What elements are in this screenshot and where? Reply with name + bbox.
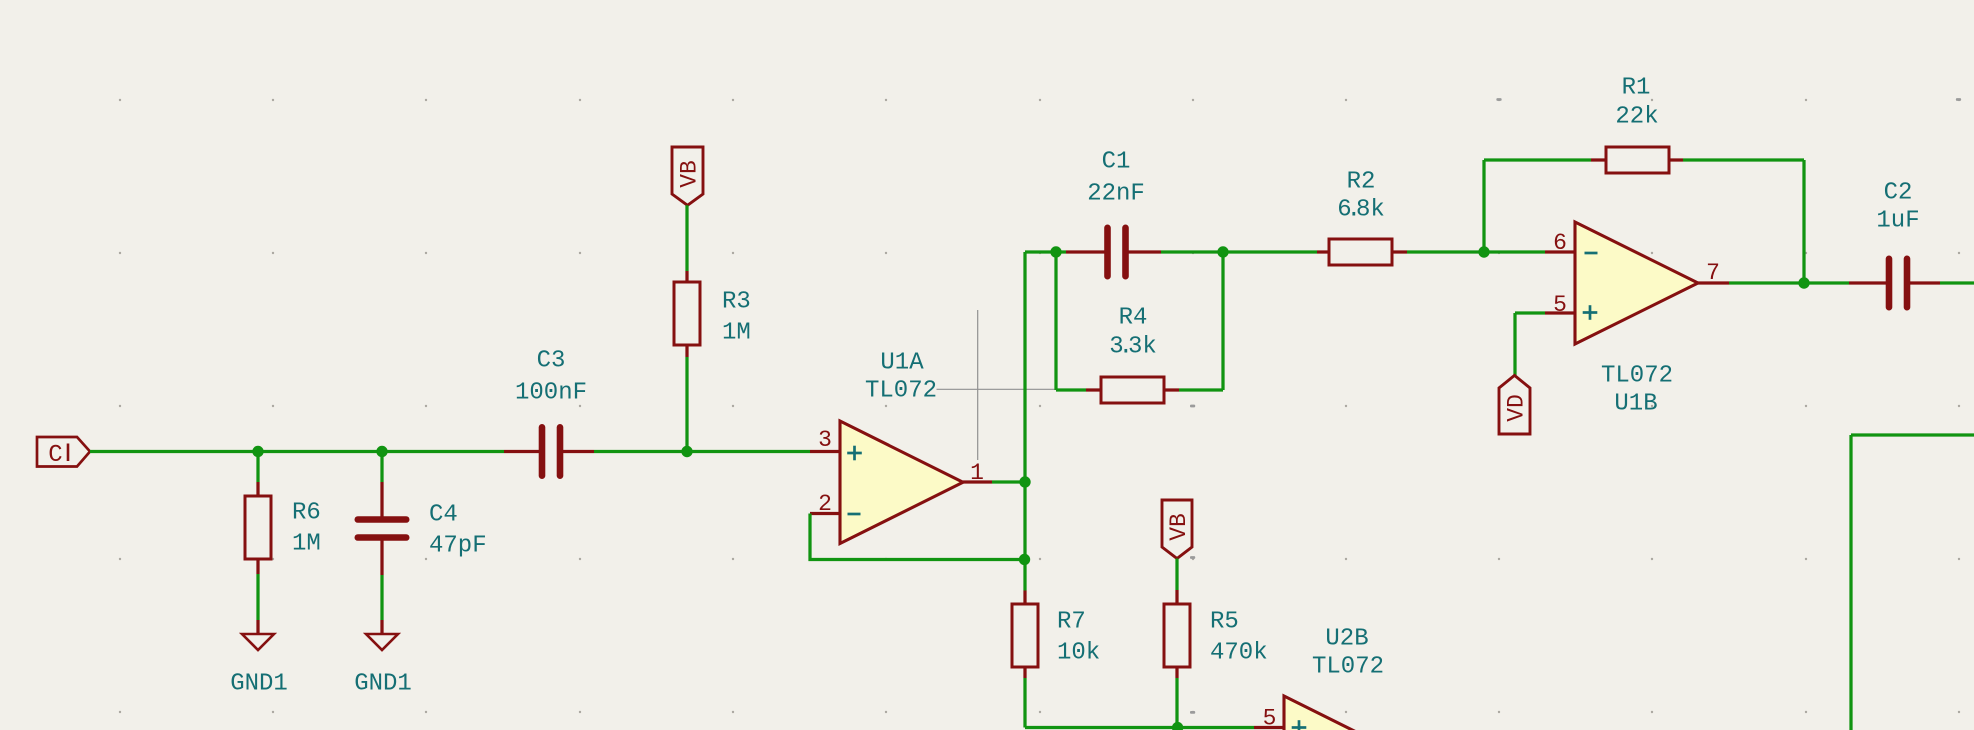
svg-text:TL072: TL072 (865, 378, 937, 405)
U2B plus input marker (1292, 720, 1307, 730)
wire R1 left leg (1484, 160, 1591, 252)
svg-text:VB: VB (1166, 513, 1192, 541)
svg-text:VD: VD (1504, 394, 1530, 422)
wire node to U1B pin 6 (1484, 250, 1545, 253)
U1B pin 6 (1545, 230, 1575, 256)
resistor R1 (1591, 75, 1683, 173)
junction at U1B output (1798, 277, 1809, 288)
wire R3 to main net (685, 357, 688, 452)
U1A pin 2 (810, 491, 840, 517)
resistor R4 (1086, 305, 1179, 403)
svg-text:R6: R6 (292, 500, 321, 527)
svg-text:5: 5 (1553, 292, 1567, 318)
op-amp U2B (1284, 626, 1408, 730)
resistor R3 (674, 271, 751, 357)
svg-text:1: 1 (970, 460, 984, 486)
wire U1B output (1729, 281, 1804, 284)
svg-text:C4: C4 (429, 502, 458, 529)
svg-text:TL072: TL072 (1601, 363, 1673, 390)
svg-text:6: 6 (1553, 230, 1567, 256)
wire C1 to R2 node (1161, 250, 1223, 253)
wire R3 node to U1A pin 3 (687, 450, 810, 453)
U1B pin 7 (1698, 260, 1729, 286)
wire R5 to bottom rail (1175, 678, 1178, 728)
svg-text:C2: C2 (1884, 180, 1913, 207)
wire VB to R5 (1175, 559, 1178, 591)
capacitor C1 (1056, 149, 1161, 277)
editor crosshair cursor (937, 310, 1075, 460)
U1B minus input marker (1585, 252, 1598, 255)
svg-text:R3: R3 (722, 289, 751, 316)
power symbol VB (bottom) (1162, 500, 1192, 559)
svg-text:U1A: U1A (880, 350, 924, 377)
svg-text:U2B: U2B (1325, 626, 1368, 653)
svg-text:1M: 1M (722, 320, 751, 347)
wire U1A pin 2 feedback (810, 514, 1025, 560)
svg-text:R2: R2 (1347, 169, 1376, 196)
svg-text:R4: R4 (1119, 305, 1148, 332)
resistor R5 (1164, 590, 1268, 678)
wire R7 to bottom rail (1025, 678, 1254, 728)
junction at feedback node (1019, 554, 1030, 565)
wire VB to R3 (685, 205, 688, 271)
junction at U1B inverting node (1478, 246, 1489, 257)
wire node to R7 (1023, 560, 1026, 591)
svg-text:10k: 10k (1057, 640, 1100, 667)
capacitor C2 (1849, 180, 1940, 308)
junction at C4 tap (376, 446, 387, 457)
junction at C1 right node (1217, 246, 1228, 257)
svg-text:U1B: U1B (1614, 391, 1657, 418)
op-amp U1A (840, 350, 963, 544)
wire node to C2 (1804, 281, 1849, 284)
svg-text:R7: R7 (1057, 609, 1086, 636)
wire node to R2 (1223, 250, 1317, 253)
wire R6 top (256, 452, 259, 483)
resistor R7 (1012, 591, 1100, 679)
wire C2 to right edge (1940, 281, 1974, 284)
svg-text:GND1: GND1 (354, 671, 412, 698)
wire output node top corner (1025, 250, 1056, 253)
ground GND1 (C4) (354, 620, 412, 698)
resistor R2 (1317, 169, 1407, 265)
svg-text:C1: C1 (1102, 149, 1131, 176)
U1B pin 5 (1545, 292, 1575, 318)
svg-text:100nF: 100nF (515, 380, 587, 407)
svg-text:7: 7 (1706, 260, 1720, 286)
svg-text:VB: VB (677, 160, 703, 188)
svg-text:1uF: 1uF (1876, 208, 1919, 235)
junction at C1 left node (1050, 246, 1061, 257)
wire VD to U1B pin 5 (1515, 313, 1545, 375)
wire C4 top (380, 452, 383, 483)
U1A minus input marker (848, 513, 861, 516)
svg-text:3: 3 (818, 427, 832, 453)
op-amp U1B (1575, 222, 1698, 418)
svg-text:470k: 470k (1210, 640, 1268, 667)
wire R4 right leg (1179, 252, 1223, 390)
wire U1A output vertical (1023, 252, 1026, 560)
ground GND1 (R6) (230, 620, 288, 698)
wire C3 to R3 node (594, 450, 687, 453)
svg-text:1M: 1M (292, 531, 321, 558)
hierarchical label CI (37, 437, 90, 469)
capacitor C4 (358, 482, 487, 575)
svg-text:TL072: TL072 (1312, 654, 1384, 681)
wire R4 left leg (1056, 252, 1086, 390)
junction at R6 tap (252, 446, 263, 457)
junction at R3 tap (681, 446, 692, 457)
wire bottom right corner (1851, 435, 1974, 730)
U1B plus input marker (1583, 305, 1598, 320)
junction at U1A output (1019, 476, 1030, 487)
wire R2 to U1B node (1407, 250, 1484, 253)
svg-text:47pF: 47pF (429, 533, 487, 560)
U1A plus input marker (847, 446, 862, 461)
svg-text:GND1: GND1 (230, 671, 288, 698)
wire R1 right leg (1683, 160, 1804, 283)
svg-text:22k: 22k (1615, 104, 1658, 131)
power symbol VB (top) (672, 147, 703, 205)
capacitor C3 (504, 348, 594, 476)
svg-text:6.8k: 6.8k (1337, 197, 1385, 224)
power symbol VD (1499, 375, 1530, 434)
svg-text:R1: R1 (1622, 75, 1651, 102)
svg-text:3.3k: 3.3k (1109, 334, 1157, 361)
svg-text:5: 5 (1263, 706, 1277, 730)
wire CI to C3 (90, 450, 504, 453)
U1A pin 3 (810, 427, 840, 453)
U2B pin 5 (1254, 706, 1284, 730)
junction at bias rail (1172, 722, 1183, 730)
U1A pin 1 (963, 460, 992, 486)
wire R6 to ground (256, 574, 259, 620)
svg-text:22nF: 22nF (1087, 181, 1145, 208)
wire C4 to ground (380, 575, 383, 620)
svg-text:2: 2 (818, 491, 832, 517)
resistor R6 (245, 482, 321, 574)
svg-text:R5: R5 (1210, 609, 1239, 636)
svg-text:C3: C3 (537, 348, 566, 375)
svg-text:C: C (48, 442, 62, 469)
wire U1A pin 1 to node (992, 480, 1025, 483)
